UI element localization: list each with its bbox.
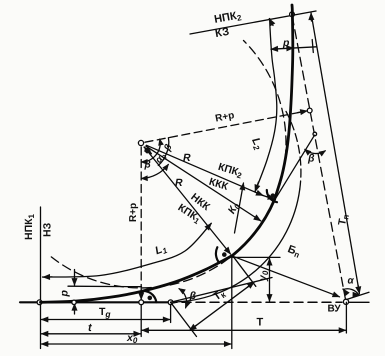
wire: НПК2/КЗ marker line at top (190, 11, 316, 34)
svg-text:у0: у0 (257, 270, 270, 282)
dimension p top-right horizontal with outside arrows (271, 47, 317, 49)
dimension Бп line from НКК point to ВУ (233, 256, 340, 297)
dimension y0 vertical line (233, 256, 280, 258)
angle beta arc at T1 (179, 289, 186, 308)
old circle K0 upper dashed part (286, 111, 301, 189)
svg-text:Тg: Тg (99, 306, 111, 319)
node КЗ circle on marker line (290, 12, 295, 17)
svg-text:β: β (307, 153, 315, 165)
dimension p bottom-left vertical with outside arrows (74, 270, 76, 279)
dashed shifted circle upper extension (244, 41, 286, 200)
svg-text:R: R (183, 152, 191, 164)
angle alpha arc at ВУ (343, 289, 359, 295)
dimension x0 horizontal line (43, 343, 230, 345)
radius ray B middle from O (146, 146, 261, 221)
svg-text:Тп: Тп (336, 213, 351, 227)
dimension Тд horizontal line (43, 319, 168, 321)
helper line from T1 at -14deg (171, 278, 272, 303)
svg-text:КЗ: КЗ (214, 26, 230, 40)
right-angle arc with dot at P2 (267, 190, 277, 202)
svg-text:НПК1: НПК1 (23, 213, 36, 240)
angle alpha arc at O (142, 139, 161, 162)
dimension t horizontal line (43, 333, 139, 335)
svg-text:R+p: R+p (214, 110, 235, 124)
angle beta2 arc at O upper (166, 138, 169, 154)
node НЗ circle (37, 300, 42, 305)
helper extension from P1 for Тк (233, 256, 256, 286)
svg-text:β: β (144, 160, 151, 171)
radius ray A from O to ККК/КПК2 point P2 (147, 145, 264, 195)
wire: bottom tangent beyond vertex (349, 301, 369, 303)
dimension Тк diagonal line (191, 283, 254, 330)
wire: second tangent dashed КЗ to ВУ (292, 16, 345, 300)
radius ray C from O to НКК/КПК1 point P1 (144, 147, 230, 254)
svg-text:R: R (175, 177, 183, 189)
svg-text:ВУ: ВУ (328, 304, 342, 315)
node foot circle F2 on second tangent (307, 108, 312, 113)
svg-text:L1: L1 (154, 242, 169, 258)
svg-text:L2: L2 (248, 136, 265, 152)
svg-text:R+p: R+p (128, 203, 139, 222)
svg-text:p: p (282, 37, 290, 49)
K0 tangential arrow on dashed circle (235, 183, 244, 233)
wire: P1 vertical extension down to x0 line (231, 257, 233, 349)
node foot circle F1 (139, 300, 144, 305)
wire: R+p diagonal dashed from O to F2 (145, 112, 304, 143)
main curve: transition 2 thick (275, 5, 293, 199)
angle alpha small arrow at O (144, 147, 151, 153)
svg-text:α: α (348, 276, 355, 287)
wire: bottom tangent dashed to vertex (168, 301, 342, 303)
dimension T horizontal line (143, 329, 344, 331)
right-angle arc with dot at P1 (216, 247, 219, 262)
dimension Тп line from НПК2 to near ВУ (311, 13, 359, 293)
angle beta1 arc at O lower (142, 165, 169, 179)
wire: R+p vertical dashed from center O to tangent (140, 147, 142, 296)
old circle K0 thin solid part (171, 189, 300, 302)
wire: vertical extension below ВУ (345, 302, 347, 333)
right-angle arc with dot at F1 (146, 291, 157, 302)
svg-text:НПК2: НПК2 (213, 9, 242, 27)
node ВУ vertex circle (343, 299, 348, 304)
svg-text:Бп: Бп (286, 243, 303, 260)
wire: first tangent prolongation tick above at ВУ (347, 292, 370, 299)
wire: bottom tangent line solid part (20, 301, 175, 303)
dimension L2 curved line (255, 19, 277, 192)
svg-text:p: p (59, 290, 71, 298)
svg-text:t: t (88, 322, 93, 334)
svg-text:Т: Т (257, 317, 264, 329)
wire X2 to P2 chord (276, 135, 315, 198)
node old-curve tangent point T1 circle (168, 300, 173, 305)
dashed shifted circle left extension (51, 256, 232, 288)
main curve: circular arc thick P1 to P2 (232, 199, 274, 255)
node НЗ marker vertical line (40, 207, 42, 349)
parallel line at distance p bottom (68, 285, 142, 288)
svg-text:НЗ: НЗ (42, 222, 54, 237)
main curve: transition 1 thick (41, 256, 233, 303)
wire: F1 vertical extension down (140, 305, 142, 337)
wire: T1 vertical extension down (170, 305, 172, 323)
angle beta arc at X2 point (305, 150, 325, 154)
svg-text:β: β (189, 290, 197, 302)
helper extension from T1 for Тк (171, 302, 197, 336)
angle alpha0 arc at O (158, 154, 166, 166)
dimension L1 curved line with left arrow (43, 224, 212, 278)
svg-text:ККК: ККК (207, 176, 229, 193)
node X2 small point (313, 132, 317, 136)
node center O circle (138, 140, 143, 145)
